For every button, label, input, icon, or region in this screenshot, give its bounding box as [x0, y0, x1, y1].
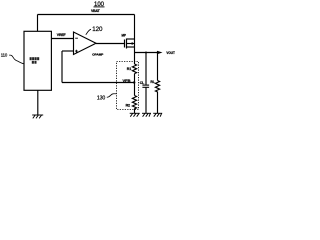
wire VREF: block 110 output to op-amp inverting input [51, 38, 73, 40]
wire VFB feedback vertical up [61, 51, 63, 83]
junction dot at capacitor branch [145, 52, 147, 54]
ground symbol under RL [153, 113, 162, 116]
junction dot at load resistor branch [157, 52, 159, 54]
resistor R1 label [127, 67, 131, 71]
svg-text:120: 120 [92, 26, 103, 33]
op-amp minus sign (inverting input) [75, 37, 78, 39]
transistor MP gate bar [124, 40, 126, 48]
op-amp 120 triangle (error amplifier) [74, 32, 97, 55]
svg-text:R1: R1 [127, 67, 131, 71]
node VFB junction dot [133, 81, 135, 83]
ground symbol under R2 [130, 113, 140, 116]
transistor MP body junction dot [131, 42, 133, 44]
wire from VBAT rail down to block 110 top [37, 15, 39, 32]
wire output node VOUT horizontal [135, 52, 159, 54]
transistor MP source stub [127, 46, 135, 48]
block 110 Chinese text line 2 (drawn as ink blobs) [32, 61, 37, 64]
ground symbol under block 110 [32, 115, 43, 118]
resistor R2 label [126, 104, 130, 108]
wire RL to ground [157, 94, 159, 114]
resistor R1 zigzag [132, 64, 136, 74]
label 110 [1, 52, 8, 57]
wire block 110 bottom to ground [37, 90, 39, 115]
net label VBAT [91, 9, 101, 13]
wire output node down to resistor R1 [134, 53, 136, 65]
svg-text:110: 110 [1, 52, 8, 57]
wire feedback into op-amp non-inverting input [62, 50, 74, 52]
svg-text:VOUT: VOUT [166, 51, 175, 55]
transistor MP body stub [127, 43, 135, 45]
label 100 (figure number) [94, 2, 105, 8]
block 110: reference voltage source rectangle [24, 31, 51, 90]
wire VBAT rail (top horizontal) [38, 14, 135, 16]
dashed box 130 (feedback divider) [117, 62, 139, 110]
svg-text:130: 130 [97, 95, 105, 101]
block 110 Chinese text line 1 (drawn as ink blobs) [30, 57, 40, 60]
wire VFB feedback horizontal [62, 82, 135, 84]
leader line from label 120 to op-amp [86, 29, 91, 35]
svg-text:RL: RL [150, 80, 154, 84]
wire VFB node down to resistor R2 [134, 83, 136, 96]
leader line from label 110 to block [9, 55, 24, 64]
capacitor CL label [140, 81, 144, 85]
label 120 [92, 26, 103, 33]
op-amp name text OPAMP [92, 53, 103, 57]
wire op-amp output to MOSFET gate [96, 43, 125, 45]
load resistor RL label [150, 80, 154, 84]
svg-text:R2: R2 [126, 104, 130, 108]
svg-text:VBAT: VBAT [91, 9, 101, 13]
svg-text:VREF: VREF [57, 33, 67, 37]
net label VREF [57, 33, 67, 37]
wire MOSFET source down to output node [134, 39, 136, 53]
underline of label 100 [94, 6, 105, 8]
wire capacitor CL to ground [145, 87, 147, 113]
capacitor CL bottom plate [142, 86, 149, 88]
transistor MP drain stub [127, 38, 135, 40]
capacitor CL top plate [142, 84, 149, 86]
load resistor RL zigzag [155, 81, 159, 94]
ground symbol under CL [142, 113, 151, 116]
svg-text:MP: MP [122, 33, 127, 37]
arrowhead of VOUT [157, 51, 163, 54]
op-amp plus sign (non-inverting input) [75, 50, 78, 53]
wire R1 to VFB node [134, 74, 136, 83]
transistor MP label [122, 33, 127, 37]
net label VFB [123, 79, 131, 83]
wire output node down to load resistor RL [157, 53, 159, 81]
transistor MP channel bar [126, 39, 128, 49]
leader line from label 130 to dashed box [107, 94, 117, 98]
net label VOUT [166, 51, 175, 55]
wire output node down to capacitor CL [145, 53, 147, 85]
label 130 [97, 95, 105, 101]
wire from VBAT rail down to MOSFET drain [134, 15, 136, 40]
resistor R2 zigzag [132, 96, 136, 111]
svg-text:OPAMP: OPAMP [92, 53, 103, 57]
wire R2 to ground [134, 111, 136, 114]
